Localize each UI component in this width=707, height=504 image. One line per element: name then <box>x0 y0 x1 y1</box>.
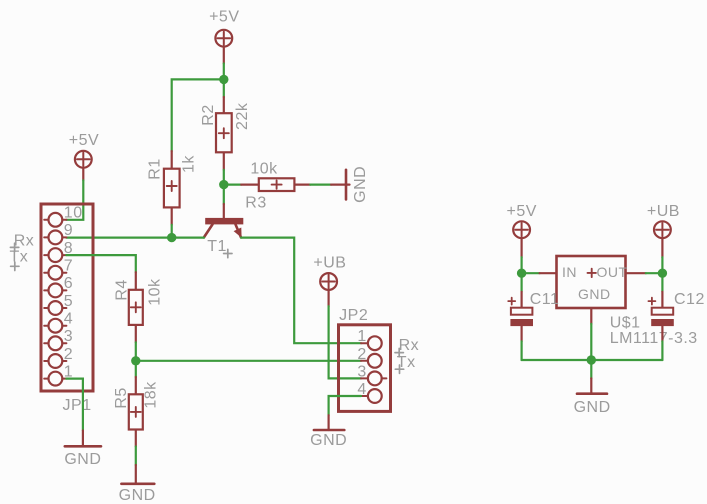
capacitor C12 <box>648 291 704 341</box>
node G junction <box>658 269 667 278</box>
wire R3 to ground <box>310 184 331 186</box>
svg-text:2: 2 <box>357 346 366 363</box>
svg-text:GND: GND <box>352 166 369 203</box>
wire node B to R3 <box>224 184 241 186</box>
svg-text:10k: 10k <box>250 161 278 178</box>
svg-text:Rx: Rx <box>399 337 420 354</box>
connector JP2 <box>339 307 391 411</box>
svg-text:IN: IN <box>562 264 577 280</box>
node A junction <box>219 75 228 84</box>
svg-text:3: 3 <box>357 363 366 380</box>
wire U$1 OUT to node G <box>646 272 663 274</box>
supply +5V (above JP1) <box>69 132 99 180</box>
svg-text:R1: R1 <box>147 158 164 179</box>
wire +5V to JP1 pin 10 <box>66 180 83 220</box>
svg-text:JP1: JP1 <box>63 397 92 414</box>
resistor R5 18k <box>113 377 159 447</box>
wire R1 to node C <box>171 225 173 238</box>
wire node G to C12 <box>661 273 663 292</box>
capacitor C11 <box>508 291 559 341</box>
node B junction <box>219 180 228 189</box>
label Tx (JP1) <box>10 249 29 271</box>
svg-text:7: 7 <box>64 258 73 275</box>
supply +5V (right) <box>506 203 536 257</box>
svg-text:C12: C12 <box>674 291 705 308</box>
node C junction <box>167 233 176 242</box>
wire +UB to node G <box>661 257 663 273</box>
svg-text:OUT: OUT <box>597 264 628 280</box>
node D junction <box>131 356 140 365</box>
svg-text:1: 1 <box>357 328 366 345</box>
svg-text:+5V: +5V <box>69 132 99 149</box>
wire C11 to bottom rail <box>520 341 522 360</box>
svg-text:JP2: JP2 <box>339 307 368 324</box>
svg-text:R2: R2 <box>200 104 217 125</box>
svg-text:R3: R3 <box>245 194 266 211</box>
resistor R3 10k <box>241 161 310 212</box>
svg-text:LM1117-3.3: LM1117-3.3 <box>610 330 698 347</box>
wire U$1 GND to node F <box>590 324 592 360</box>
wire +5V to node E <box>520 257 522 273</box>
svg-text:10k: 10k <box>147 278 164 306</box>
svg-text:1k: 1k <box>180 155 197 173</box>
svg-text:2: 2 <box>64 346 73 363</box>
svg-text:U$1: U$1 <box>610 314 641 331</box>
wire node A to R1 <box>172 79 224 151</box>
svg-text:GND: GND <box>574 399 611 416</box>
svg-text:+UB: +UB <box>647 203 680 220</box>
svg-text:9: 9 <box>64 222 73 239</box>
svg-text:18k: 18k <box>143 381 160 409</box>
svg-text:+UB: +UB <box>313 254 346 271</box>
svg-text:6: 6 <box>64 275 73 292</box>
svg-text:T1: T1 <box>207 238 227 255</box>
label Tx (JP2) <box>395 354 415 374</box>
svg-text:4: 4 <box>64 311 73 328</box>
ground GND (right of R3) <box>331 166 369 203</box>
svg-text:GND: GND <box>119 487 156 504</box>
transistor T1 <box>204 204 243 258</box>
resistor R4 10k <box>114 272 164 342</box>
label Rx (JP2) <box>395 337 419 357</box>
wire +5V top to node A <box>223 64 225 80</box>
wire JP1 pin 9 to T1 <box>66 237 204 239</box>
svg-text:GND: GND <box>64 451 101 468</box>
wire node A to R2 <box>223 79 225 97</box>
svg-text:+5V: +5V <box>506 203 536 220</box>
ground GND (below R5) <box>119 465 156 504</box>
wire T1 emitter to JP2 pin 1 <box>241 238 361 344</box>
wire node D to R5 <box>135 361 137 377</box>
wire +UB to JP2 pin 3 <box>329 306 361 378</box>
svg-text:GND: GND <box>578 286 611 302</box>
wire node E to U$1 IN <box>522 272 540 274</box>
svg-text:22k: 22k <box>234 102 251 130</box>
supply +5V (top) <box>209 9 239 64</box>
wire JP2 pin 4 to ground <box>329 396 361 415</box>
supply +UB (above JP2) <box>313 254 346 306</box>
wire JP1 pin 1 to ground <box>66 379 83 431</box>
node F junction <box>587 355 596 364</box>
svg-text:+5V: +5V <box>209 9 239 26</box>
node E junction <box>517 269 526 278</box>
resistor R2 22k <box>200 97 251 170</box>
wire R2 to node B <box>223 170 225 185</box>
wire node B to T1 base <box>223 185 225 204</box>
wire R5 to ground <box>135 447 137 466</box>
svg-text:R5: R5 <box>113 387 130 408</box>
wire node E to C11 <box>520 273 522 292</box>
ground GND (below U$1) <box>574 378 611 416</box>
wire node F to ground <box>590 360 592 378</box>
wire C12 to bottom rail <box>661 341 663 360</box>
wire bottom rail <box>522 359 663 361</box>
ground GND (below JP2) <box>310 415 347 449</box>
svg-text:R4: R4 <box>114 279 131 300</box>
resistor R1 1k <box>147 151 198 225</box>
svg-text:Tx: Tx <box>10 249 29 266</box>
svg-text:C11: C11 <box>530 291 560 308</box>
label Rx (JP1) <box>10 233 34 252</box>
regulator U$1 LM1117-3.3 <box>540 256 698 347</box>
wire node D to JP2 pin 2 <box>136 360 361 362</box>
ground GND (below JP1) <box>64 431 101 469</box>
wire R4 to node D <box>135 342 137 361</box>
wire JP1 pin 8 to R4 <box>66 255 136 272</box>
connector JP1 <box>41 204 93 414</box>
svg-text:10: 10 <box>64 205 83 222</box>
svg-text:3: 3 <box>64 328 73 345</box>
svg-text:GND: GND <box>310 432 347 449</box>
svg-text:5: 5 <box>64 293 73 310</box>
supply +UB (right) <box>647 203 680 257</box>
